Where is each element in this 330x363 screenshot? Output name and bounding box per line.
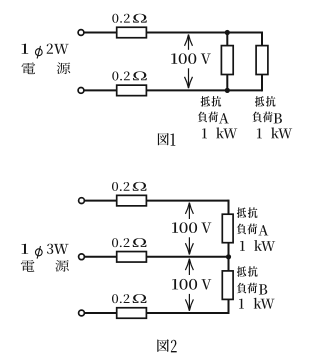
label R1 value 0.2 Ω [112,14,147,23]
voltage arrow 100V lower down [185,294,193,311]
label R5 value 0.2 Ω [112,294,147,303]
resistor load A (fig1) [221,46,233,75]
wire load-A vertical top [226,33,228,46]
resistor R1 0.2Ω line-1 series [117,27,147,38]
caption 図2 [157,339,176,352]
label R3 value 0.2 Ω [112,182,147,191]
voltage arrow 100V upper up [185,203,193,219]
wire [84,200,117,202]
label R2 value 0.2 Ω [112,71,147,80]
voltage arrow 100V lower up [185,259,193,275]
label load A 抵抗/負荷A/1 kW (fig2) [237,207,276,251]
resistor R3 0.2Ω line-1 series [117,195,147,206]
label R4 value 0.2 Ω [112,238,147,247]
junction dot node a [225,30,230,35]
label source 1φ2W [21,44,68,59]
wire load-B vertical bottom [261,75,263,92]
terminal T3 (line 1) [79,198,85,204]
resistor R2 0.2Ω line-2 series [117,85,147,96]
label source 1φ3W [21,244,68,259]
wire right bus mid-upper segment [228,243,230,257]
resistor R4 0.2Ω neutral series [117,252,147,262]
resistor load A (fig2) [222,214,233,243]
resistor load B (fig1) [256,46,268,75]
terminal T5 (line 2) [79,310,85,316]
resistor load B (fig2) [222,271,233,300]
wire [84,312,117,314]
wire right bus bottom segment [228,299,230,314]
wire load-B vertical top [261,32,263,46]
label source 電源 (fig2) [21,260,69,272]
label source 電源 [21,62,70,74]
wire right bus mid-lower segment [228,257,230,271]
wire [146,312,228,314]
label 100 V upper [172,222,211,233]
terminal T1 (source + line 1) [78,30,84,36]
voltage arrow 100V up [185,35,193,50]
resistor R5 0.2Ω line-2 series [117,308,147,319]
voltage arrow 100V upper down [185,237,193,254]
wire [146,200,228,202]
terminal T4 (neutral) [79,254,85,260]
junction dot node b [225,88,230,93]
junction dot neutral node [226,254,231,259]
wire [146,256,228,258]
wire [146,89,262,91]
wire [84,256,117,258]
terminal T2 (source - line 2) [78,88,84,94]
label load B 抵抗/負荷B/1 kW (fig2) [237,266,275,308]
wire right bus top segment [228,200,230,215]
voltage arrow 100V down [185,68,193,88]
label 100 V [171,53,211,64]
caption 図1 [158,133,176,146]
label load B 抵抗/負荷B/1 kW (fig1) [252,96,292,138]
wire [84,89,117,91]
label 100 V lower [172,279,211,290]
label load A 抵抗/負荷A/1 kW (fig1) [198,96,238,138]
wire [146,32,262,34]
wire [84,32,117,34]
wire load-A vertical bottom [226,75,228,91]
